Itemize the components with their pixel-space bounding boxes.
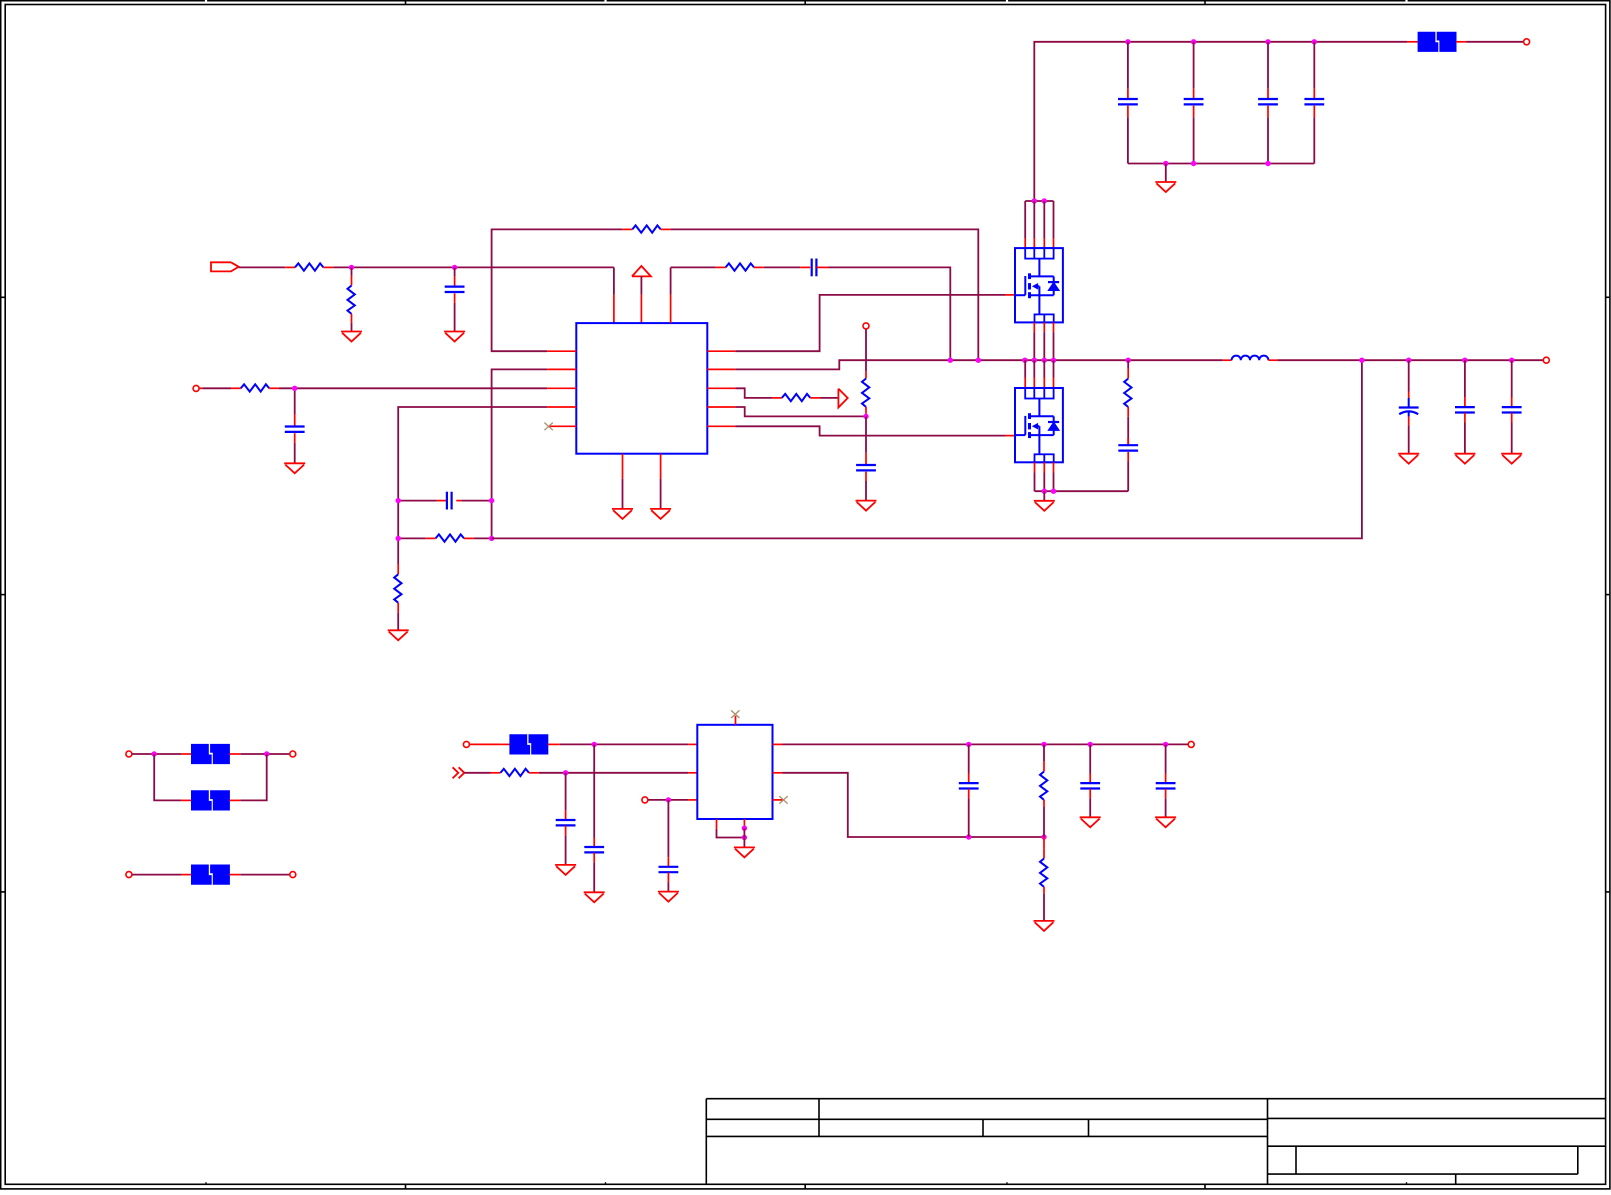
node junction C2 tap bbox=[292, 386, 297, 391]
node junction en tap bbox=[666, 797, 671, 802]
node junction at C1 tap bbox=[452, 265, 457, 270]
pin Q2 source bbox=[1043, 462, 1045, 472]
resistor R11 bbox=[491, 772, 501, 774]
pin Q1 drain bbox=[1053, 238, 1055, 248]
node junction ldo in bbox=[592, 742, 597, 747]
wire U1 left pin4 to divider bbox=[398, 407, 547, 564]
pin U2 right 1 bbox=[773, 743, 783, 745]
node junction fb left bbox=[396, 536, 401, 541]
node junction Q2 bus a bbox=[1042, 489, 1047, 494]
pin U1 right 5 bbox=[707, 425, 735, 427]
no-connect X1 bbox=[544, 423, 552, 431]
terminal T7 bbox=[126, 872, 132, 878]
wire C1 to ground bbox=[454, 303, 456, 332]
resistor R2 bbox=[351, 267, 353, 275]
wire C12 to ground bbox=[1464, 423, 1466, 454]
pin Q2 drain bbox=[1033, 378, 1035, 389]
wire Q2 source lead bbox=[1043, 473, 1045, 492]
pin U2 right 3 no-connect bbox=[773, 799, 783, 801]
node junction out c13 bbox=[1509, 358, 1514, 363]
wire Q2 drain lead bbox=[1043, 360, 1045, 377]
node junction ldo out c17 bbox=[966, 742, 971, 747]
wire bus to ground bbox=[1165, 164, 1167, 183]
node junction bus c8 bbox=[1265, 161, 1270, 166]
pin U1 top 1 bbox=[613, 295, 615, 324]
pin Q1 drain bbox=[1024, 238, 1026, 248]
wire R1 to U1 pin corner with junctions bbox=[333, 266, 614, 268]
wire C13 to ground bbox=[1511, 423, 1513, 454]
pin U1 top 2 bbox=[640, 295, 642, 324]
pin Q2 gate bbox=[1005, 435, 1016, 437]
wire U1 right pin2 step to SW rail bbox=[735, 360, 1223, 369]
node junction fb cap bbox=[966, 834, 971, 839]
resistor R6 divider bottom bbox=[397, 564, 399, 574]
resistor R8 bbox=[772, 397, 782, 399]
capacitor C11 polarized bbox=[1408, 360, 1410, 391]
pin U1 left 1 bbox=[547, 350, 576, 352]
wire Q1 drain lead bbox=[1043, 201, 1045, 238]
terminal T4 VOUT bbox=[1543, 357, 1549, 363]
wire Q2 source lead bbox=[1034, 473, 1036, 492]
node junction comp left bbox=[396, 498, 401, 503]
pin Q2 drain bbox=[1053, 378, 1055, 389]
ferrite bead FB2 bbox=[181, 753, 191, 755]
pin U1 right 3 bbox=[707, 387, 735, 389]
transistor Q2 low-side MOSFET bbox=[1015, 388, 1063, 462]
ground GND6 bbox=[650, 508, 671, 510]
wire parallel branch right bbox=[240, 754, 266, 800]
pin Q1 source bbox=[1053, 322, 1055, 332]
pin U2 bottom 2 bbox=[743, 819, 745, 828]
capacitor C12 output bbox=[1464, 360, 1466, 397]
wire R4 to U1 pin 3 bbox=[279, 387, 547, 389]
wire Q1 drain lead bbox=[1033, 201, 1035, 238]
capacitor C18 ldo output bbox=[1089, 744, 1091, 773]
wire T9 to FB5 bbox=[470, 743, 500, 745]
wire C9 to bus bbox=[1313, 117, 1315, 163]
node junction out fb bbox=[1359, 358, 1364, 363]
wire Q1 source lead bbox=[1043, 332, 1045, 360]
capacitor C1 bbox=[454, 267, 456, 276]
wire Q1 source lead bbox=[1053, 332, 1055, 360]
wire port to R1 bbox=[239, 266, 286, 268]
pin Q1 drain bbox=[1033, 238, 1035, 248]
pin U1 left 5 no-connect bbox=[550, 425, 577, 427]
node junction out c11 bbox=[1406, 358, 1411, 363]
pin U1 left 2 bbox=[547, 368, 576, 370]
capacitor C10 snubber bbox=[1127, 439, 1129, 446]
wire T7 to FB4 bbox=[132, 874, 181, 876]
transistor Q1 high-side MOSFET bbox=[1015, 248, 1063, 322]
pin U1 right 1 bbox=[707, 350, 735, 352]
node junction ldo out divider bbox=[1041, 742, 1046, 747]
wire VIN rail bbox=[1034, 42, 1407, 201]
wire C7 to bus bbox=[1193, 117, 1195, 163]
node junction R9 bottom bbox=[863, 414, 868, 419]
wire FB5 to U2 pin1 bbox=[560, 743, 688, 745]
IC U2 regulator bbox=[697, 725, 772, 819]
terminal T1 left input bbox=[193, 385, 199, 391]
wire C16 to ground bbox=[667, 882, 669, 892]
node junction ldo out c19 bbox=[1163, 742, 1168, 747]
wire T10 to U2 pin3 bbox=[648, 799, 688, 801]
arrow marker A1 bbox=[838, 389, 847, 408]
wire FB1 to terminal bbox=[1467, 41, 1524, 43]
ground GND18 bbox=[1080, 816, 1101, 818]
wire input cap ground bus bbox=[1128, 163, 1314, 165]
ground GND13 bbox=[584, 891, 605, 893]
node junction bead out bbox=[264, 751, 269, 756]
resistor R3 top loop bbox=[622, 228, 632, 230]
pin U1 left 4 bbox=[547, 406, 576, 408]
wire C15 to ground bbox=[565, 835, 567, 865]
title block bbox=[706, 1098, 1605, 1100]
pin U2 right 2 bbox=[773, 772, 783, 774]
wire R7 to C4 bbox=[764, 266, 800, 268]
capacitor C5 bbox=[865, 453, 867, 465]
capacitor C6 input bbox=[1127, 42, 1129, 89]
ground GND9 bbox=[1034, 500, 1055, 502]
pin U1 right 2 bbox=[707, 368, 735, 370]
pin U2 top bbox=[735, 716, 737, 725]
node junction bead in bbox=[152, 751, 157, 756]
pin U2 left 3 bbox=[688, 799, 697, 801]
pin Q2 source bbox=[1034, 462, 1036, 472]
wire C19 to ground bbox=[1165, 798, 1167, 817]
pin Q2 source bbox=[1053, 462, 1055, 472]
capacitor C9 input bbox=[1313, 42, 1315, 89]
node junction bus gnd bbox=[1163, 161, 1168, 166]
ground GND3 bbox=[284, 462, 305, 464]
wire FB2 to T6 bbox=[240, 753, 289, 755]
no-connect X2 bbox=[731, 710, 739, 718]
pin Q1 source bbox=[1033, 322, 1035, 332]
wire Q2 drain lead bbox=[1033, 360, 1035, 377]
IC U1 controller bbox=[576, 323, 707, 454]
wire C14 to ground bbox=[593, 862, 595, 892]
wire Q2 bus to ground bbox=[1043, 491, 1045, 501]
wire C6 to bus bbox=[1127, 117, 1129, 163]
terminal T6 bbox=[290, 751, 296, 757]
inductor L1 bbox=[1223, 359, 1232, 361]
pin Q2 drain bbox=[1043, 378, 1045, 389]
node junction fb right bbox=[489, 536, 494, 541]
node junction Q1 bus a bbox=[1032, 198, 1037, 203]
wire U2 bottom pin1 to gnd node bbox=[717, 829, 745, 838]
wire R3 to SW node bbox=[671, 229, 979, 360]
ground GND1 bbox=[341, 331, 362, 333]
node junction bus c7 bbox=[1191, 161, 1196, 166]
wire C17 to fb node bbox=[968, 798, 970, 837]
wire U1 right pin5 to Q2 gate bbox=[735, 426, 1005, 435]
wire feedback top loop bbox=[492, 229, 623, 351]
power symbol VCC arrow bbox=[632, 266, 651, 276]
no-connect X3 bbox=[779, 796, 787, 804]
node junction Q2 bus b bbox=[1051, 489, 1056, 494]
terminal T2 sense bbox=[863, 323, 869, 329]
node junction rail c6 bbox=[1125, 39, 1130, 44]
capacitor C15 bbox=[565, 773, 567, 811]
ground GND10 bbox=[1398, 453, 1419, 455]
wire U1 bottom pin1 to ground bbox=[622, 479, 624, 509]
wire C8 to bus bbox=[1267, 117, 1269, 163]
capacitor C19 ldo output bbox=[1165, 744, 1167, 773]
ground GND15 bbox=[658, 891, 679, 893]
pin Q1 drain bbox=[1043, 238, 1045, 248]
wire FB4 to T8 bbox=[240, 874, 289, 876]
wire feedback long run to output bbox=[492, 360, 1362, 538]
ground GND17 bbox=[1034, 920, 1055, 922]
ferrite bead FB5 bbox=[500, 743, 510, 745]
pin U1 bottom 1 bbox=[622, 454, 624, 479]
wire C10 to Q2 source bus bbox=[1127, 462, 1129, 492]
wire parallel branch left bbox=[154, 754, 181, 800]
ground GND19 bbox=[1155, 816, 1176, 818]
pin U1 left 3 bbox=[547, 387, 576, 389]
node junction ldo out c18 bbox=[1088, 742, 1093, 747]
wire R13 to ground bbox=[1043, 894, 1045, 921]
wire R12 to fb node bbox=[1043, 807, 1045, 837]
terminal T10 enable bbox=[642, 797, 648, 803]
wire U1 right pin1 to Q1 gate bbox=[735, 295, 1005, 351]
resistor R7 bbox=[716, 266, 726, 268]
node junction gnd a bbox=[742, 826, 747, 831]
wire Q1 drain lead bbox=[1053, 201, 1055, 238]
ground GND7 bbox=[856, 500, 877, 502]
wire R2 to ground bbox=[351, 323, 353, 332]
wire R11 to U2 pin2 bbox=[539, 772, 688, 774]
wire R8 to arrow bbox=[820, 397, 838, 399]
capacitor C14 ldo in bbox=[593, 744, 595, 837]
wire VCC to U1 top pin 2 bbox=[640, 276, 642, 294]
ground GND5 bbox=[612, 508, 633, 510]
wire Q2 source bus bbox=[1035, 490, 1129, 492]
wire C4 to SW node bbox=[829, 267, 951, 360]
capacitor C7 input bbox=[1193, 42, 1195, 89]
resistor R4 bbox=[231, 387, 241, 389]
capacitor C4 series bbox=[800, 266, 810, 268]
terminal T11 LDO out bbox=[1188, 741, 1194, 747]
pin Q2 drain bbox=[1024, 378, 1026, 389]
capacitor C16 bbox=[667, 800, 669, 857]
pin Q1 source bbox=[1043, 322, 1045, 332]
wire T1 to R4 bbox=[200, 387, 203, 389]
pin Q1 gate bbox=[1005, 294, 1016, 296]
resistor R5 comp bbox=[398, 537, 426, 539]
wire Q2 drain lead bbox=[1053, 360, 1055, 377]
wire R9 node down to C5 bbox=[865, 416, 867, 452]
wire Q2 source lead bbox=[1053, 473, 1055, 492]
wire C18 to ground bbox=[1089, 798, 1091, 817]
pin U2 left 1 bbox=[688, 743, 697, 745]
wire Q1 drain bus bbox=[1025, 200, 1053, 202]
node junction gnd b bbox=[742, 835, 747, 840]
offpage connector chevron bbox=[453, 767, 459, 778]
ground GND2 bbox=[444, 331, 465, 333]
pin U1 right 4 bbox=[707, 406, 735, 408]
wire Q2 drain lead bbox=[1024, 360, 1026, 377]
wire R10 to C10 bbox=[1127, 417, 1129, 445]
wire down to U1 top pin 1 bbox=[613, 267, 615, 294]
node junction at R2 tap bbox=[349, 265, 354, 270]
node junction Q1 bus b bbox=[1042, 198, 1047, 203]
input port P1 bbox=[211, 262, 239, 271]
node junction fb divider bbox=[1041, 834, 1046, 839]
terminal T8 bbox=[290, 872, 296, 878]
wire R6 to ground bbox=[397, 613, 399, 631]
wire U1 right pin4 to R9 node bbox=[735, 407, 866, 416]
capacitor C2 bbox=[294, 391, 296, 414]
wire U1 left pin2 to comp network bbox=[492, 369, 548, 538]
resistor R13 divider bottom bbox=[1043, 837, 1045, 849]
ground GND14 bbox=[555, 864, 576, 866]
capacitor C13 output bbox=[1511, 360, 1513, 397]
capacitor C3 comp bbox=[398, 500, 437, 502]
wire U1 top pin3 to R7 bbox=[670, 267, 672, 294]
wire C2 to ground bbox=[294, 443, 296, 463]
terminal T5 bbox=[126, 751, 132, 757]
wire U2 gnd node down bbox=[743, 828, 745, 847]
ferrite bead FB1 bbox=[1407, 41, 1418, 43]
ground GND8 bbox=[1155, 181, 1176, 183]
capacitor C17 across divider bbox=[968, 744, 970, 773]
wire U1 bottom pin2 to ground bbox=[660, 479, 662, 509]
wire Q1 drain lead bbox=[1024, 201, 1026, 238]
wire U2 output rail bbox=[783, 743, 1188, 745]
wire U2 fb pin to divider node bbox=[783, 773, 1045, 837]
ground GND11 bbox=[1454, 453, 1475, 455]
terminal T9 LDO input bbox=[463, 741, 469, 747]
wire U1 right pin3 to R8 bbox=[735, 388, 772, 398]
wire Q1 source lead bbox=[1033, 332, 1035, 360]
resistor R1 bbox=[285, 266, 295, 268]
resistor R10 snubber bbox=[1127, 360, 1129, 368]
ferrite bead FB4 bbox=[181, 874, 191, 876]
wire SW node junction row bbox=[948, 358, 953, 363]
node junction out c12 bbox=[1462, 358, 1467, 363]
wire L1 to output terminal bbox=[1278, 359, 1543, 361]
pin U2 bottom 1 bbox=[716, 819, 718, 829]
ground GND16 bbox=[734, 846, 755, 848]
node junction adj tap bbox=[563, 770, 568, 775]
ground GND12 bbox=[1501, 453, 1522, 455]
ground GND4 bbox=[388, 629, 409, 631]
pin U2 left 2 bbox=[688, 772, 697, 774]
node junction rail c8 bbox=[1265, 39, 1270, 44]
node junction rail c7 bbox=[1191, 39, 1196, 44]
terminal T3 VIN bbox=[1524, 39, 1530, 45]
resistor R9 bbox=[865, 372, 867, 379]
node junction rail c9 bbox=[1312, 39, 1317, 44]
pin U1 top 3 bbox=[670, 295, 672, 324]
node junction comp right bbox=[489, 498, 494, 503]
capacitor C8 input bbox=[1267, 42, 1269, 89]
wire T2 down to R9 bbox=[865, 329, 867, 371]
wire chevron to R11 bbox=[464, 772, 490, 774]
pin U1 bottom 2 bbox=[660, 454, 662, 479]
ferrite bead FB3 bbox=[181, 799, 191, 801]
resistor R12 divider top bbox=[1043, 744, 1045, 761]
wire T5 to FB2 bbox=[132, 753, 181, 755]
wire C5 to ground bbox=[865, 481, 867, 501]
